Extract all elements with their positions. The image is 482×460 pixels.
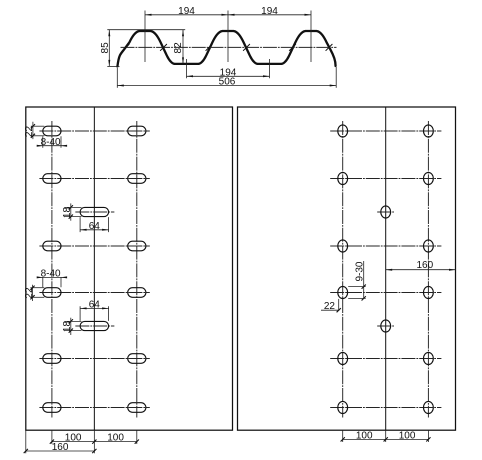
svg-text:160: 160 [416,260,433,271]
svg-text:100: 100 [399,431,416,442]
svg-text:100: 100 [107,433,124,444]
svg-text:18: 18 [62,207,73,219]
svg-text:8-40: 8-40 [41,269,61,280]
svg-text:64: 64 [89,300,101,311]
svg-text:194: 194 [261,6,278,17]
svg-text:160: 160 [52,442,69,453]
svg-text:8-40: 8-40 [41,137,61,148]
svg-text:506: 506 [219,77,236,88]
svg-text:9-30: 9-30 [354,261,365,281]
svg-text:22: 22 [24,126,35,138]
svg-text:85: 85 [100,42,111,54]
svg-text:22: 22 [24,287,35,299]
svg-text:194: 194 [178,6,195,17]
svg-text:100: 100 [356,431,373,442]
svg-text:82: 82 [173,42,184,54]
svg-text:18: 18 [62,321,73,333]
svg-text:64: 64 [89,221,101,232]
